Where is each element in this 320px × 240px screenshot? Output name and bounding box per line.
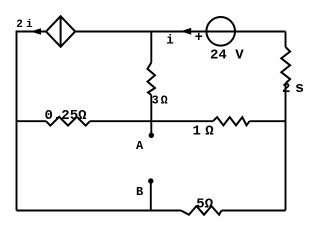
- label B: [136, 185, 143, 199]
- svg-text:0.25Ω: 0.25Ω: [45, 108, 88, 124]
- svg-text:i: i: [166, 34, 174, 48]
- wire bottom-left segment: [17, 210, 182, 212]
- svg-text:2: 2: [16, 19, 23, 31]
- label 1Ω: [193, 124, 215, 140]
- svg-text:i: i: [26, 19, 33, 31]
- svg-text:B: B: [136, 185, 143, 199]
- label + (voltage source polarity): [195, 31, 203, 46]
- svg-text:+: +: [195, 31, 203, 46]
- wire left lower segment: [16, 121, 18, 211]
- svg-text:Ω: Ω: [161, 94, 168, 107]
- svg-text:s: s: [295, 80, 304, 97]
- resistor 1Ω: [213, 117, 250, 125]
- wire 3-ohm branch lower stub to node A: [150, 95, 152, 135]
- wire bottom-right segment: [222, 210, 286, 212]
- label 2 s: [282, 80, 304, 97]
- svg-text:1: 1: [193, 124, 201, 140]
- svg-text:5Ω: 5Ω: [196, 196, 213, 212]
- label 5Ω: [196, 196, 213, 212]
- dependent current source 2i (diamond): [46, 16, 75, 47]
- wire node B stub: [150, 181, 152, 211]
- current arrow 2i: [31, 28, 42, 35]
- voltage source U1 (circle): [206, 17, 235, 46]
- resistor 5Ω: [181, 206, 222, 215]
- resistor 3Ω: [148, 63, 156, 96]
- wire middle-left segment: [17, 120, 47, 122]
- svg-text:24 V: 24 V: [210, 48, 244, 64]
- resistor 2s (right side): [281, 47, 290, 84]
- label 3Ω: [152, 94, 168, 107]
- node A (dot): [149, 133, 154, 138]
- label A: [136, 139, 144, 153]
- current arrow i: [181, 28, 191, 35]
- svg-text:3: 3: [152, 94, 159, 107]
- svg-text:Ω: Ω: [205, 124, 214, 140]
- wire top middle segment: [75, 31, 285, 33]
- wire top-left segment: [17, 32, 47, 122]
- label 2i: [16, 19, 33, 31]
- label i: [166, 34, 174, 48]
- label 24 V: [210, 48, 244, 64]
- label 0.25Ω: [45, 108, 88, 124]
- resistor 0.25Ω: [46, 117, 90, 126]
- wire middle right segment: [250, 120, 286, 122]
- wire middle center segment: [90, 120, 213, 122]
- wire right upper stub: [285, 32, 287, 48]
- wire 3-ohm branch upper stub: [150, 32, 152, 63]
- node B (dot): [148, 178, 153, 183]
- svg-text:A: A: [136, 139, 144, 153]
- wire right lower segment: [285, 84, 287, 211]
